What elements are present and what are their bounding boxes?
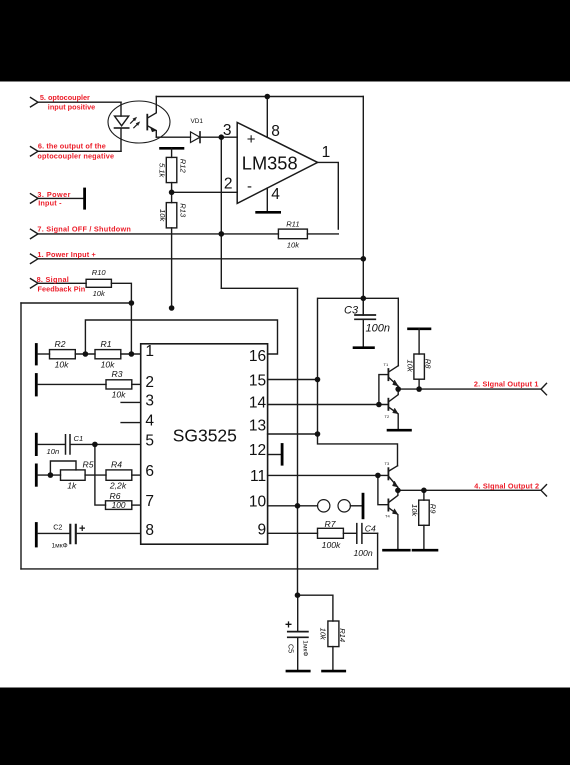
svg-text:10: 10 [249,494,267,511]
wire R4 to IC pin6 [132,474,141,476]
svg-text:R2: R2 [55,339,66,349]
wire R5 wiper loop [50,461,76,475]
svg-text:R11: R11 [286,220,299,229]
junction VCC-C3 node [361,296,367,302]
resistor R3 body [106,380,132,389]
node 1 input chevron [31,254,39,263]
svg-text:5.1k: 5.1k [158,163,167,179]
svg-text:10k: 10k [55,359,70,369]
terminal bar above R12 [161,147,184,150]
terminal bar pin6 net [35,465,38,485]
optocoupler phototransistor base bar [146,115,148,130]
phototransistor emitter arrowhead [151,128,157,132]
terminal bar pin1 net [35,345,38,365]
transistor T1 collector lead [389,366,398,372]
svg-text:14: 14 [249,395,267,412]
wire op-amp pin8 riser [266,97,268,138]
svg-text:C4: C4 [365,524,376,534]
junction power plus rail [361,256,367,262]
junction pin10 shutdown rail [295,503,301,509]
transistor T1 emitter arrowhead [393,380,398,386]
svg-text:5: 5 [145,433,154,450]
wire C4 to loop corner [363,532,378,534]
wire pin13 row [268,433,318,435]
wire R10 to feedback node [111,283,131,354]
junction pin14 base node [376,402,382,408]
svg-text:T2: T2 [385,414,390,419]
node output2 chevron [541,485,547,496]
resistor R7 body [318,528,344,538]
junction R8 output node [416,386,422,392]
optocoupler light arrow 1 [131,120,134,123]
wire VC to T3 collector [318,434,398,466]
wire input5 to optocoupler LED anode [38,101,121,103]
svg-text:+: + [247,131,256,148]
IC U3 SG3525 body [141,344,268,544]
svg-text:R7: R7 [325,519,337,529]
svg-text:10k: 10k [101,359,116,369]
wire VD1 to op-amp pin3 [200,136,237,138]
svg-text:100: 100 [112,500,126,510]
junction shutdown node [219,231,225,237]
svg-text:8. Signal: 8. Signal [37,275,69,284]
svg-text:7. Signal OFF / Shutdown: 7. Signal OFF / Shutdown [37,225,130,234]
transistor T1 base bar [387,369,389,380]
capacitor C4 plates [357,524,362,544]
capacitor C3 plates [355,315,375,319]
wire pin11 row [268,474,388,476]
wire soft-start node to R14 [298,595,333,621]
transistor T2 emitter arrowhead [393,408,398,413]
wire pin8 row to C2 [38,532,70,534]
junction R2-R1 node [83,351,89,357]
svg-text:T4: T4 [385,514,390,519]
wire node VD1 down to shutdown line [220,137,222,288]
svg-text:7: 7 [145,493,154,510]
wire top rail (VCC) [156,96,363,98]
svg-text:input positive: input positive [48,103,95,112]
svg-text:T3: T3 [385,461,390,466]
svg-text:1k: 1k [67,481,77,491]
node 3 input chevron [31,194,39,203]
svg-text:+: + [285,618,292,632]
svg-text:Feedback Pin: Feedback Pin [38,284,86,293]
transistor T3 emitter lead [389,477,398,490]
wire pad to terminal [350,505,361,507]
wire pin10 row [268,505,318,507]
svg-text:SG3525: SG3525 [173,426,237,446]
svg-text:R1: R1 [101,339,112,349]
wire input8 to R10 [38,282,86,284]
svg-text:10k: 10k [93,289,106,298]
transistor T4 collector lead [389,490,398,502]
svg-text:optocoupler negative: optocoupler negative [37,152,114,161]
wire pin15 row [268,379,318,381]
wire LED anode vertical [120,102,122,116]
svg-text:11: 11 [250,468,266,485]
svg-text:10k: 10k [406,360,415,373]
svg-text:Input -: Input - [38,199,62,208]
diode VD1 cathode bar [199,132,201,143]
svg-text:5. optocoupler: 5. optocoupler [40,93,90,102]
diode VD1 triangle [191,132,201,143]
phototransistor collector [148,97,157,118]
wire shutdown line to R11 [38,233,278,235]
junction T1-T2 output node [395,386,401,392]
svg-text:VD1: VD1 [191,118,204,125]
wire R5 to R4 [85,474,106,476]
junction T3-T4 output node [395,488,401,494]
svg-text:10k: 10k [287,241,300,250]
wire R6 to IC pin7 [132,504,141,506]
wire power input minus [38,197,83,199]
wire T4 base riser [378,475,388,504]
transistor T4 base bar [387,499,389,510]
ground T4 [384,549,410,552]
svg-text:3: 3 [223,122,232,139]
node 7 input chevron [31,229,39,238]
capacitor C2 plates [70,525,76,543]
junction R12 R13 pin2 node [169,190,175,196]
wire pin5 row to C1 [38,443,65,445]
ground R9 [413,549,437,552]
node 8 input chevron [31,279,39,288]
wire pin4 stub [121,422,141,424]
transistor T4 emitter arrowhead [393,509,398,514]
wire pin9 row to R7 [268,532,318,534]
wire R1 to IC pin1 [121,353,141,355]
transistor T2 emitter lead [389,407,398,429]
wire outer loop bottom [21,568,378,570]
transistor T1 emitter lead [389,378,398,389]
svg-text:16: 16 [249,348,266,365]
resistor R9 body [419,500,430,525]
svg-text:10k: 10k [410,504,419,517]
op-amp U1 triangle [237,122,317,203]
terminal bar power minus [83,189,86,208]
svg-text:R4: R4 [111,460,122,470]
wire emitter to diode VD1 [156,136,190,138]
wire T1 base riser [379,375,388,405]
wire op-amp pin4 to ground [266,188,268,211]
svg-text:C5: C5 [286,644,295,653]
ground T2 [388,429,411,432]
optocoupler light arrow 2 [134,124,137,127]
optocoupler LED triangle [115,116,129,126]
wire pin1 row [38,353,50,355]
svg-text:6: 6 [145,463,154,480]
junction R1-pin1 node [129,351,135,357]
svg-text:4. SIgnal Output 2: 4. SIgnal Output 2 [474,481,539,490]
terminal bar pin5 net [35,434,38,454]
svg-text:10k: 10k [158,209,167,222]
resistor R12 body [166,157,177,182]
resistor R14 body [328,621,339,647]
wire R7 to C4 [343,532,356,534]
svg-text:2: 2 [145,374,154,391]
transistor T2 base bar [387,399,389,410]
wire C1 node down to R6 [95,444,106,505]
terminal bar pin8 net [35,524,38,547]
svg-text:2: 2 [224,176,233,193]
svg-text:LM358: LM358 [242,153,298,174]
svg-text:6. the output of the: 6. the output of the [38,142,106,151]
wire C1 to IC pin5 [71,443,141,445]
resistor R6 body [106,501,132,510]
transistor T2 collector lead [389,389,398,401]
svg-text:3: 3 [145,393,154,410]
node 6 input chevron [31,147,39,156]
wire Vref loop pin1 to pin16 [85,320,277,354]
terminal bar pin10 net [362,494,365,518]
transistor T3 collector lead [389,466,397,471]
wire pin3 stub [121,401,141,403]
wire feedback left branch [21,302,131,304]
jumper pad circle left [318,500,330,512]
svg-text:10n: 10n [47,447,60,456]
jumper pad circle right [338,500,350,512]
top letterbox bar [0,0,570,82]
resistor R1 body [95,350,121,359]
svg-text:10k: 10k [112,390,127,400]
wire R11 to op-amp output [307,233,338,235]
svg-text:R9: R9 [428,504,437,514]
wire R2 to R1 [75,353,95,355]
wire outer loop left rail [20,303,22,569]
wire VCC right rail down to C3 [362,97,364,316]
wire C5 top lead [297,595,299,631]
svg-text:1: 1 [145,343,154,360]
svg-text:8: 8 [271,123,280,140]
svg-text:C2: C2 [53,523,62,532]
ground C3 [354,346,374,349]
svg-text:C1: C1 [74,434,84,443]
terminal bar pin2 net [35,375,38,396]
wire input6 to LED cathode [38,150,121,152]
phototransistor emitter [148,126,157,137]
wire pin2 row [38,383,107,385]
wire terminal to R12 [171,148,173,157]
wire LED cathode vertical [120,128,122,151]
junction R13 lower node [169,305,175,311]
junction R9 output node [421,488,427,494]
svg-text:1мкФ: 1мкФ [301,640,308,656]
svg-text:100n: 100n [354,548,373,558]
resistor R10 body [86,279,111,287]
wire R9 to ground [423,525,425,549]
resistor R2 body [50,350,76,359]
svg-text:2,2k: 2,2k [109,481,127,491]
svg-text:R10: R10 [92,268,107,277]
capacitor C5 plates [288,632,308,638]
wire op-amp output pin1 [318,162,339,229]
wire power input plus [38,258,363,260]
svg-text:12: 12 [249,442,266,459]
junction top rail / op-amp pin8 [265,94,271,100]
node output1 chevron [541,383,547,394]
wire soft-start rail [297,288,299,595]
junction soft-start node [295,592,301,598]
wire R13 bottom lead [171,228,173,308]
wire C2 to IC pin8 [77,532,141,534]
ground C5 [287,670,309,673]
svg-text:+: + [79,523,85,535]
svg-text:8: 8 [145,522,154,539]
terminal bar R8 top [409,327,431,330]
resistor R9 top lead [423,490,425,500]
wire output1 row [398,388,541,390]
wire shutdown branch down-right [221,287,297,289]
svg-text:R5: R5 [83,460,94,470]
wire VCC to C3 plate [362,298,364,314]
junction pin13 to rail [315,431,321,437]
wire output2 row [398,489,541,491]
wire outer loop right riser to C4 [377,533,379,569]
wire R14 to ground [332,647,334,670]
wire T1 collector riser [397,298,399,365]
svg-text:1: 1 [322,144,331,161]
resistor R13 body [166,203,177,228]
svg-text:1. Power Input +: 1. Power Input + [37,250,95,259]
wire C3 top link [318,297,398,299]
ground R14 [323,670,345,673]
junction R5 wiper node pin6 [48,472,54,478]
svg-text:15: 15 [249,373,266,390]
transistor T3 base bar [387,468,389,479]
resistor R4 body [106,470,132,480]
transistor T3 emitter arrowhead [393,481,398,487]
svg-text:9: 9 [257,522,266,539]
wire junction to op-amp pin2 [172,191,238,193]
node 5 input chevron [31,98,39,107]
wire C5 to ground [297,638,299,670]
junction pin15 to rail [315,377,321,383]
wire pin6 row to R5 [38,474,61,476]
ground op-amp [257,211,280,214]
bottom letterbox bar [0,688,570,765]
resistor R11 body [278,229,307,239]
svg-text:R8: R8 [424,359,433,369]
terminal bar pin12 net [281,445,284,465]
optocoupler U2 ellipse [108,101,170,143]
resistor R5 body [61,470,86,480]
svg-text:13: 13 [249,417,266,434]
junction feedback node on wire303 [129,300,135,306]
wire R3 to IC pin2 [132,383,141,385]
wire pin14 row [268,404,388,406]
optocoupler LED cathode bar [115,127,129,129]
svg-text:100k: 100k [322,540,341,550]
svg-text:1мкФ: 1мкФ [52,543,68,550]
svg-text:-: - [247,178,252,195]
wire R8 to output1 [418,379,420,389]
svg-text:10k: 10k [318,628,327,641]
resistor R8 body [414,354,425,379]
svg-text:R14: R14 [338,628,347,642]
wire terminal to R8 [418,329,420,354]
svg-text:R13: R13 [179,203,188,218]
svg-text:2. SIgnal Output 1: 2. SIgnal Output 1 [474,379,539,388]
junction VD1 output node [219,134,225,140]
svg-text:4: 4 [271,186,280,203]
svg-text:C3: C3 [344,305,359,317]
wire R12 to R13 junction [171,183,173,203]
junction C1 node pin5 [92,442,98,448]
wire pin12 row [268,454,281,456]
svg-text:T1: T1 [384,362,389,367]
svg-text:4: 4 [145,413,154,430]
svg-text:100n: 100n [366,323,390,335]
capacitor C1 plates [66,435,71,454]
junction pin11 base node [375,473,381,479]
svg-text:R12: R12 [179,159,188,174]
wire C3 to ground [362,320,364,346]
svg-text:R3: R3 [112,369,123,379]
transistor T4 emitter lead [389,508,398,549]
wire VCC-VC rail [317,298,319,434]
